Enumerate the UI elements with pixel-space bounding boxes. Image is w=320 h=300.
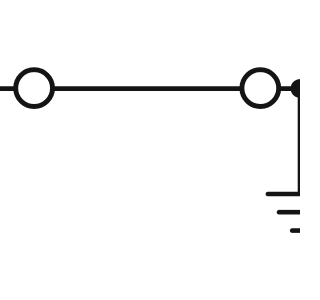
terminal point circle 1 [16, 70, 53, 107]
node junction dot [291, 79, 310, 98]
ground [268, 194, 320, 231]
terminal point circle 2 [242, 70, 279, 107]
wire [298, 89, 303, 194]
wire [0, 86, 293, 91]
